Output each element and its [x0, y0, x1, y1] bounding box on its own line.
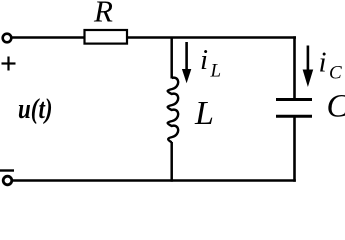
terminal top-left [3, 34, 12, 43]
svg-text:u(t): u(t) [18, 94, 53, 125]
svg-text:R: R [93, 0, 113, 29]
svg-text:L: L [194, 95, 214, 132]
terminal bottom-left [3, 176, 12, 185]
wire L branch lower [170, 142, 173, 182]
inductor L coil [168, 78, 179, 143]
svg-text:i: i [200, 44, 208, 76]
current arrow iC [307, 46, 310, 72]
svg-text:C: C [327, 89, 345, 125]
wire right branch lower [293, 117, 296, 182]
svg-text:L: L [210, 61, 222, 82]
wire top-left segment [12, 36, 85, 39]
wire top middle segment [127, 36, 296, 39]
resistor R box [85, 30, 128, 44]
current arrow iL [185, 42, 188, 71]
svg-text:C: C [329, 63, 342, 84]
capacitor C plates [276, 98, 312, 101]
wire L branch upper [170, 37, 173, 79]
wire right branch upper [293, 36, 296, 99]
minus sign [0, 169, 14, 171]
plus sign [2, 57, 16, 71]
svg-text:i: i [319, 47, 327, 79]
wire bottom [12, 179, 296, 182]
